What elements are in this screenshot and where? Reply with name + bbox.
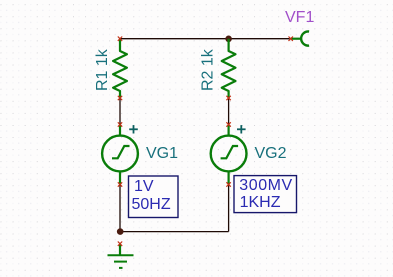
junction node at R2 top bbox=[225, 36, 232, 43]
wire top net from R1 to VF1 bbox=[120, 38, 290, 40]
terminal cross VG1 bottom bbox=[118, 182, 122, 186]
label R2 1k bbox=[200, 48, 217, 91]
voltage generator VG1 bbox=[102, 125, 138, 185]
resistor R1 bbox=[113, 39, 127, 98]
ground bbox=[108, 244, 134, 268]
voltage generator VG2 bbox=[211, 125, 247, 185]
svg-text:1V: 1V bbox=[134, 178, 154, 195]
probe VF1 bbox=[291, 31, 309, 45]
wire VG2 bottom to bottom net bbox=[228, 185, 230, 232]
plus sign VG2 bbox=[237, 125, 246, 133]
terminal cross VG2 top bbox=[226, 122, 230, 126]
terminal cross VG1 top bbox=[118, 122, 122, 126]
junction node at ground bbox=[117, 228, 124, 235]
value label box VG2 bbox=[234, 176, 297, 213]
svg-text:VF1: VF1 bbox=[285, 9, 314, 26]
terminal cross VF1 bbox=[289, 37, 293, 41]
terminal cross ground bbox=[118, 242, 122, 246]
wire R2 bottom to VG2 top bbox=[228, 98, 230, 125]
value label box VG1 bbox=[129, 176, 179, 218]
svg-text:VG2: VG2 bbox=[255, 145, 287, 162]
resistor R2 bbox=[222, 39, 236, 98]
svg-text:R1 1k: R1 1k bbox=[94, 48, 111, 91]
plus sign VG1 bbox=[129, 125, 138, 133]
svg-text:1KHZ: 1KHZ bbox=[240, 194, 281, 211]
label R1 1k bbox=[94, 48, 111, 91]
wire bottom net horizontal bbox=[120, 231, 229, 233]
label VG2 bbox=[255, 145, 287, 162]
terminal cross VG2 bottom bbox=[226, 182, 230, 186]
terminal cross R2 bottom bbox=[226, 96, 230, 100]
terminal cross R1 top bbox=[118, 37, 122, 41]
label VF1 bbox=[285, 9, 314, 26]
label VG1 bbox=[146, 145, 178, 162]
svg-text:50HZ: 50HZ bbox=[132, 196, 171, 213]
wire R1 bottom to VG1 top bbox=[119, 98, 121, 125]
svg-text:R2 1k: R2 1k bbox=[200, 48, 217, 91]
wire VG1 bottom to ground node bbox=[119, 185, 121, 232]
terminal cross R1 bottom bbox=[118, 96, 122, 100]
svg-text:300MV: 300MV bbox=[239, 177, 292, 194]
svg-text:VG1: VG1 bbox=[146, 145, 178, 162]
